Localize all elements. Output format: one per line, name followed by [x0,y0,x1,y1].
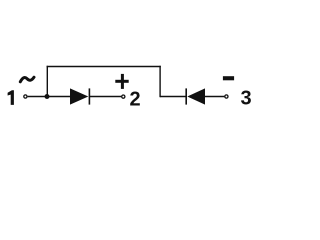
minus label at terminal 3 [223,76,234,80]
node junction dot [45,94,50,99]
wire top horizontal [47,66,161,68]
wire D1 to terminal 2 [89,96,121,98]
wire junction up [46,66,48,97]
diode D2 (cathode left, anode right) [186,88,205,104]
terminal 3 (open circle) [225,95,228,98]
svg-text:3: 3 [240,87,251,109]
terminal 1 label "1" [8,90,14,105]
plus label at terminal 2 [115,74,128,89]
terminal 2 (open circle) [122,95,125,98]
wire to diode D2 [160,96,186,98]
wire right vertical down [159,66,161,97]
wire terminal 1 to diode D1 [28,96,71,98]
diode D1 (anode left, cathode right) [70,88,89,104]
wire D2 to terminal 3 [205,96,224,98]
terminal 1 (open circle) [24,95,27,98]
AC symbol ~ at terminal 1 [20,77,34,82]
svg-text:2: 2 [129,88,140,110]
